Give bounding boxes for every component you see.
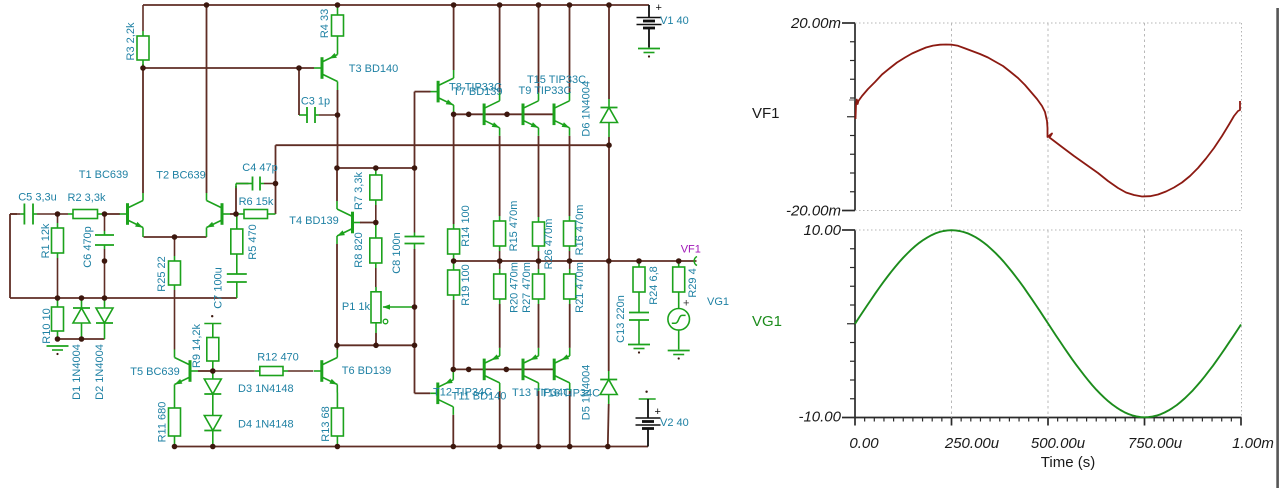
resistor R13 [320, 393, 343, 447]
junction [504, 367, 510, 373]
wire VAS node [337, 167, 415, 169]
svg-text:Time (s): Time (s) [1041, 454, 1095, 471]
svg-text:VG1: VG1 [707, 296, 729, 308]
resistor R4 [319, 5, 344, 47]
svg-text:C7 100u: C7 100u [213, 267, 225, 309]
transistor T13 [523, 348, 539, 391]
junction [636, 258, 642, 264]
potentiometer P1 [342, 287, 415, 333]
wire C4 node down to R6 [275, 186, 277, 214]
svg-text:R11 680: R11 680 [157, 402, 169, 443]
svg-text:R21 470m: R21 470m [574, 262, 586, 313]
junction [210, 444, 216, 450]
svg-text:500.00u: 500.00u [1031, 435, 1086, 452]
svg-text:R24 6,8: R24 6,8 [648, 266, 660, 305]
junction [102, 258, 108, 264]
junction [334, 165, 340, 171]
wire diff pair tail [144, 236, 207, 238]
wire D1 D2 bottom [58, 338, 105, 340]
junction [536, 2, 542, 8]
svg-text:VF1: VF1 [752, 105, 780, 122]
svg-text:C6 470p: C6 470p [82, 226, 94, 268]
svg-text:C5 3,3u: C5 3,3u [18, 192, 57, 204]
transistor T3 [314, 47, 338, 90]
wire D6 top column [608, 5, 610, 99]
ground [668, 351, 690, 360]
junction [412, 343, 418, 349]
svg-text:C4 47p: C4 47p [242, 162, 277, 174]
plot frame VF1 [842, 23, 1242, 211]
wire T8 emitter down [499, 136, 501, 216]
wire C3 left leg [298, 68, 300, 115]
wire T3 collector column [337, 90, 339, 168]
svg-text:C13 220n: C13 220n [615, 295, 627, 343]
capacitor C6 [95, 214, 114, 298]
wire V2 bottom lead [647, 429, 649, 447]
net connector [639, 391, 656, 400]
transistor T5 [175, 350, 199, 393]
capacitor C8 [405, 168, 425, 249]
junction [412, 304, 418, 310]
junction [451, 112, 457, 118]
junction [466, 112, 472, 118]
junction [497, 444, 503, 450]
wire R21 to T16 emitter [569, 304, 571, 348]
wire T9 emitter down [538, 136, 540, 217]
svg-text:T7 BD139: T7 BD139 [453, 86, 503, 98]
plot frame VG1 [842, 230, 1242, 426]
wire T9 collector up [538, 5, 540, 93]
junction [504, 112, 510, 118]
wire T1 collector column [142, 68, 144, 193]
svg-text:VG1: VG1 [752, 313, 782, 330]
junction [536, 258, 542, 264]
wire T5 base [198, 370, 213, 372]
junction [466, 367, 472, 373]
svg-text:D6 1N4004: D6 1N4004 [581, 81, 593, 137]
junction [676, 258, 682, 264]
resistor R11 [157, 393, 181, 447]
wire T4 base [360, 222, 376, 224]
wire bottom output bases [453, 368, 554, 370]
junction [497, 258, 503, 264]
resistor R25 [156, 237, 181, 350]
svg-text:R25 22: R25 22 [156, 256, 168, 291]
wire R3 bottom to node [142, 64, 144, 68]
svg-text:T15 TIP33C: T15 TIP33C [527, 74, 586, 86]
resistor R3 [125, 5, 149, 68]
transistor T1 [120, 193, 144, 237]
svg-text:R1 12k: R1 12k [40, 223, 52, 258]
capacitor C13 [629, 308, 649, 345]
svg-text:10.00: 10.00 [803, 222, 841, 239]
resistor R15 [494, 201, 520, 261]
wire output column upper [608, 145, 610, 261]
wire V2 top lead [647, 399, 649, 418]
wire T6 collector stub [336, 345, 338, 349]
resistor R1 [40, 214, 64, 298]
svg-text:C8 100n: C8 100n [391, 232, 403, 274]
junction [55, 295, 61, 301]
junction [210, 368, 216, 374]
wire T7 base stub [431, 91, 439, 93]
capacitor C4 [236, 177, 276, 191]
wire feedback down to C4/R6 [275, 145, 277, 181]
battery V2 [636, 406, 689, 429]
svg-text:750.00u: 750.00u [1128, 435, 1183, 452]
resistor R27 [533, 261, 545, 304]
wire T7 collector up [453, 5, 455, 70]
wire R27 to T13 emitter [538, 304, 540, 348]
svg-text:R15 470m: R15 470m [508, 201, 520, 252]
resistor R10 [41, 298, 64, 344]
svg-text:T2 BC639: T2 BC639 [156, 170, 206, 182]
transistor T15 [554, 93, 570, 136]
diode D5 [581, 365, 618, 421]
resistor R12 [213, 352, 313, 376]
resistor R5 [231, 214, 259, 262]
svg-text:T1 BC639: T1 BC639 [79, 169, 129, 181]
svg-text:250.00u: 250.00u [944, 435, 1000, 452]
svg-text:D5 1N4004: D5 1N4004 [581, 365, 593, 421]
junction [335, 2, 341, 8]
svg-text:P1 1k: P1 1k [342, 301, 371, 313]
capacitor C3 [299, 107, 338, 123]
wire T2 base [230, 213, 236, 215]
junction [605, 444, 611, 450]
wire T1 collector node to T3 base [143, 67, 314, 69]
svg-text:T11 BD140: T11 BD140 [452, 391, 507, 403]
diode D2 [94, 298, 113, 400]
svg-text:+: + [656, 2, 662, 14]
transistor T4 [337, 201, 361, 244]
svg-text:R29 4: R29 4 [687, 268, 699, 297]
wire T2 collector column [206, 5, 208, 193]
junction [335, 444, 341, 450]
wire T7 base column [414, 92, 416, 168]
battery V1 [637, 2, 689, 28]
junction [102, 211, 108, 217]
svg-text:R6 15k: R6 15k [239, 196, 274, 208]
transistor T11 [438, 369, 454, 414]
resistor R19 [448, 261, 472, 306]
wire R19 to bottom base node [453, 300, 455, 369]
transistor T8 [484, 93, 500, 136]
wire D5 to bottom rail [607, 404, 610, 447]
svg-text:D3 1N4148: D3 1N4148 [238, 383, 294, 395]
wire R20 to T12 emitter [499, 304, 501, 348]
svg-text:V1 40: V1 40 [660, 15, 689, 27]
svg-text:1.00m: 1.00m [1232, 435, 1274, 452]
wire wiper node down [414, 307, 416, 345]
junction [536, 444, 542, 450]
transistor T16 [554, 348, 570, 391]
wire T15 emitter down [569, 136, 571, 216]
wire V1 top lead [648, 5, 650, 17]
svg-text:R2 3,3k: R2 3,3k [68, 192, 106, 204]
svg-text:R4 33: R4 33 [319, 9, 331, 38]
wire C4 left green [235, 184, 237, 189]
junction [567, 258, 573, 264]
svg-text:0.00: 0.00 [849, 435, 879, 452]
wire D6 bottom to feedback node [608, 137, 610, 145]
wire T15 collector up [569, 5, 571, 93]
svg-text:-20.00m: -20.00m [786, 203, 841, 220]
junction [373, 165, 379, 171]
junction [140, 65, 146, 71]
wire T8 collector up [499, 5, 501, 93]
junction [273, 181, 279, 187]
junction [606, 142, 612, 148]
junction [567, 444, 573, 450]
junction [335, 112, 341, 118]
wire C8 bottom to wiper node [414, 249, 416, 307]
wire T11 base horizontal [415, 392, 431, 394]
resistor R6 [236, 196, 276, 219]
transistor T6 [314, 350, 338, 393]
svg-text:R3 2,2k: R3 2,2k [125, 22, 137, 60]
resistor R24 [633, 261, 660, 308]
svg-text:D4 1N4148: D4 1N4148 [238, 419, 294, 431]
diode D4 [204, 416, 221, 447]
generator VG1 [668, 296, 729, 350]
svg-text:R5 470: R5 470 [247, 224, 259, 259]
diode D1 [71, 298, 90, 400]
svg-text:R26 470m: R26 470m [543, 219, 555, 270]
junction [334, 343, 340, 349]
wire T16 collector down [569, 391, 571, 447]
junction [606, 2, 612, 8]
wire top node to R14 [453, 114, 455, 224]
resistor R7 [353, 168, 382, 223]
junction [55, 211, 61, 217]
wire C4 left leg [235, 186, 237, 214]
wire down to T11 base [414, 345, 416, 393]
svg-text:T6 BD139: T6 BD139 [342, 365, 392, 377]
svg-text:V2 40: V2 40 [660, 417, 689, 429]
svg-text:R27 470m: R27 470m [521, 262, 533, 313]
resistor R20 [494, 261, 521, 313]
junction [79, 336, 85, 342]
capacitor C5 [10, 204, 58, 225]
transistor T9 [523, 93, 539, 136]
transistor T2 [207, 193, 231, 237]
ground [47, 346, 69, 355]
resistor R2 [58, 192, 106, 219]
junction [497, 2, 503, 8]
resistor R16 [564, 205, 587, 261]
wire input stub to C5 [10, 213, 17, 215]
wire output column to D5 [608, 261, 610, 371]
svg-text:R13 68: R13 68 [320, 406, 332, 441]
wire T1 base [105, 213, 121, 215]
junction [373, 343, 379, 349]
wire T4 emitter column [336, 244, 338, 345]
junction [451, 2, 457, 8]
wire +V top rail [143, 4, 649, 6]
wire bottom feedback rail [10, 297, 237, 299]
capacitor C7 [227, 262, 247, 298]
svg-text:R14 100: R14 100 [460, 205, 472, 247]
svg-text:T4 BD139: T4 BD139 [289, 215, 339, 227]
wire T6 collector node to P1 bottom [337, 344, 415, 346]
wire T7 base horizontal [415, 91, 431, 93]
window edge [1276, 8, 1279, 488]
svg-text:R19 100: R19 100 [460, 264, 472, 306]
svg-text:VF1: VF1 [681, 244, 701, 256]
svg-text:-10.00: -10.00 [798, 409, 841, 426]
svg-text:R10 10: R10 10 [41, 308, 53, 343]
transistor T7 [438, 70, 454, 114]
svg-text:D2 1N4004: D2 1N4004 [94, 344, 106, 400]
resistor R8 [353, 223, 382, 288]
wire left feedback column [9, 214, 11, 298]
wire -V bottom rail [175, 446, 649, 448]
junction [296, 65, 302, 71]
junction [79, 295, 85, 301]
resistor R14 [448, 205, 472, 261]
svg-text:R8 820: R8 820 [353, 232, 365, 267]
junction [204, 2, 210, 8]
junction [172, 444, 178, 450]
node VF1 output connector [694, 257, 697, 266]
junction [451, 444, 457, 450]
wire T11 base stub [430, 392, 438, 394]
junction [102, 295, 108, 301]
wire T13 collector down [538, 391, 540, 447]
svg-text:+: + [683, 298, 689, 310]
junction [451, 258, 457, 264]
curve VG1 [855, 230, 1241, 417]
wire T4 collector column [336, 168, 338, 201]
svg-text:20.00m: 20.00m [790, 15, 841, 32]
svg-text:D1 1N4004: D1 1N4004 [71, 344, 83, 400]
junction [606, 258, 612, 264]
wire output rail [454, 260, 697, 262]
wire feedback from output [276, 144, 610, 146]
resistor R9 [191, 323, 219, 371]
svg-text:C3 1p: C3 1p [301, 96, 330, 108]
wire T12 collector down [499, 391, 501, 447]
diode D3 [204, 371, 221, 416]
junction [451, 367, 457, 373]
svg-text:R9 14,2k: R9 14,2k [191, 323, 203, 368]
wire T11 collector down [452, 415, 454, 447]
junction [233, 211, 239, 217]
wire V1 bottom lead [648, 29, 650, 48]
svg-text:R7 3,3k: R7 3,3k [353, 172, 365, 210]
diode D6 [581, 81, 618, 137]
resistor R26 [533, 217, 556, 269]
svg-text:R16 470m: R16 470m [574, 205, 586, 256]
ground [628, 345, 650, 354]
junction [567, 2, 573, 8]
svg-text:R12 470: R12 470 [257, 352, 299, 364]
svg-text:R20 470m: R20 470m [509, 262, 521, 313]
junction [373, 220, 379, 226]
junction [55, 336, 61, 342]
wire P1 bottom [375, 333, 377, 345]
svg-text:T5 BC639: T5 BC639 [130, 366, 180, 378]
junction [412, 165, 418, 171]
svg-text:T9 TIP33C: T9 TIP33C [519, 85, 572, 97]
cursor mark [849, 99, 855, 101]
wire top output bases [454, 113, 554, 115]
resistor R29 [673, 261, 699, 309]
junction [172, 234, 178, 240]
transistor T12 [484, 348, 500, 391]
svg-text:T3 BD140: T3 BD140 [349, 63, 399, 75]
curve VF1 [856, 45, 1241, 197]
ground [638, 49, 660, 58]
net connector [204, 315, 221, 324]
resistor R21 [564, 261, 586, 313]
